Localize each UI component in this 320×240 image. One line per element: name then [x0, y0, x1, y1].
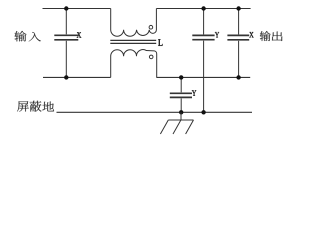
circuit schematic: EMI power line filter [0, 0, 297, 147]
capacitor Y (bottom line to shield, lower) [170, 77, 192, 112]
inductor L: top winding of common-mode choke [111, 9, 157, 37]
junction: input X cap to bottom line [64, 75, 68, 79]
wire: shield ground bus [57, 111, 253, 113]
label: 输出 (output) [260, 31, 271, 41]
junction: upper Y cap to top line [201, 6, 205, 10]
junction: upper Y cap to shield bus [201, 110, 205, 114]
wire: top line, output side [156, 8, 250, 10]
label Y (upper Y cap) [215, 32, 219, 37]
ground (chassis earth) symbol [160, 112, 193, 134]
wire: top line, input side [43, 8, 111, 10]
wire: bottom line, input side [43, 76, 111, 78]
junction: input X cap to top line [64, 6, 68, 10]
wire: bottom line, output side [156, 76, 250, 78]
polarity dot, bottom winding [149, 55, 153, 59]
label X (input cap) [77, 32, 81, 37]
label X (output cap) [249, 32, 253, 37]
label: 屏蔽地 (shield ground) [17, 101, 29, 111]
junction: lower Y cap / earth to shield bus [179, 110, 183, 114]
inductor L: core lines [110, 39, 156, 41]
label Y (lower Y cap) [192, 90, 196, 95]
junction: output X cap to bottom line [236, 75, 240, 79]
label L (choke) [158, 39, 162, 46]
polarity dot, top winding [149, 25, 153, 29]
capacitor X (input side) [54, 9, 78, 78]
capacitor Y (line to shield, upper) [192, 9, 214, 113]
junction: lower Y cap to bottom line [179, 75, 183, 79]
inductor L: bottom winding of common-mode choke [111, 50, 157, 78]
capacitor X (output side) [227, 9, 249, 78]
junction: output X cap to top line [236, 6, 240, 10]
label: 输入 (input) [14, 31, 26, 41]
